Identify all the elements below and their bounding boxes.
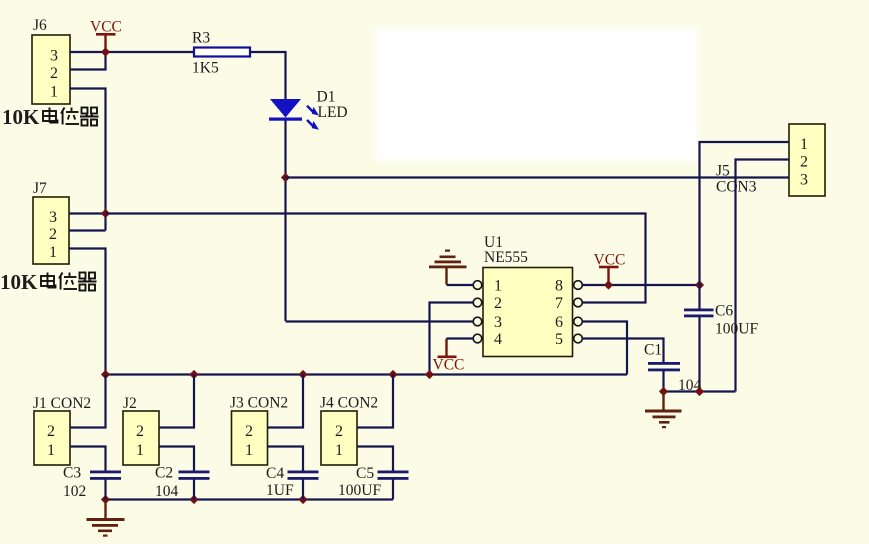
svg-text:1: 1 xyxy=(245,442,253,459)
connector J4 CON2 xyxy=(320,395,378,466)
svg-text:1: 1 xyxy=(494,278,502,295)
svg-text:10K: 10K xyxy=(2,105,40,129)
junction dot bus/J4 xyxy=(388,370,397,379)
svg-text:2: 2 xyxy=(494,295,502,312)
junction dot VCC/J6.3 xyxy=(101,47,110,56)
svg-text:C3: C3 xyxy=(63,465,81,482)
capacitor C6 xyxy=(684,285,758,392)
svg-text:2: 2 xyxy=(800,154,808,171)
pin circle U1.1 xyxy=(473,281,482,290)
wire J5 pin1 down to C6 node xyxy=(700,142,790,285)
junction dot C1 bottom xyxy=(659,387,668,396)
svg-text:4: 4 xyxy=(494,331,502,348)
svg-text:1: 1 xyxy=(136,442,144,459)
wire J4 pin2 to bus xyxy=(357,375,393,428)
svg-text:C5: C5 xyxy=(356,465,374,482)
wire J7 pin3 stub xyxy=(69,212,106,214)
dian xyxy=(41,276,54,286)
power VCC (right of U1 pin8) xyxy=(594,252,626,286)
svg-text:3: 3 xyxy=(800,172,808,189)
svg-text:2: 2 xyxy=(245,423,253,440)
svg-text:NE555: NE555 xyxy=(484,249,528,266)
svg-text:D1: D1 xyxy=(317,89,336,106)
svg-text:J2: J2 xyxy=(123,395,137,412)
ground above U1 pin1 xyxy=(429,250,467,285)
wire J7 pin2 stub xyxy=(69,229,106,231)
connector J1 CON2 xyxy=(33,395,91,465)
capacitor C4 xyxy=(266,465,319,500)
svg-text:J7: J7 xyxy=(33,180,47,197)
svg-text:2: 2 xyxy=(335,423,343,440)
ground (bottom) xyxy=(87,500,125,537)
svg-text:2: 2 xyxy=(136,423,144,440)
svg-text:1UF: 1UF xyxy=(266,482,294,499)
svg-text:VCC: VCC xyxy=(433,357,465,374)
ground below C1 xyxy=(645,392,682,429)
svg-text:J5: J5 xyxy=(716,163,730,180)
connector J3 CON2 xyxy=(230,395,288,466)
qi xyxy=(80,273,86,279)
svg-text:2: 2 xyxy=(47,423,55,440)
dian xyxy=(43,111,56,121)
svg-text:2: 2 xyxy=(50,65,58,82)
pin circle U1.6 xyxy=(574,317,583,326)
svg-text:J4 CON2: J4 CON2 xyxy=(320,395,378,412)
label 10K potentiometer (J6) xyxy=(2,105,99,129)
svg-text:1: 1 xyxy=(800,136,808,153)
resistor R3 xyxy=(192,30,250,77)
svg-text:3: 3 xyxy=(49,209,57,226)
svg-text:3: 3 xyxy=(494,314,502,331)
junction dot node A xyxy=(281,173,290,182)
wire U1 pin6 to bus corner xyxy=(582,322,627,375)
label 10K potentiometer (J7) xyxy=(0,270,97,294)
capacitor C2 xyxy=(155,465,210,501)
svg-text:10K: 10K xyxy=(0,270,38,294)
power VCC (top) xyxy=(90,19,122,53)
svg-text:J1 CON2: J1 CON2 xyxy=(33,395,91,412)
wire J3 pin1 to C4 xyxy=(268,447,304,471)
svg-text:3: 3 xyxy=(50,48,58,65)
svg-text:C4: C4 xyxy=(266,465,284,482)
pin circle U1.5 xyxy=(574,334,583,343)
connector J2 xyxy=(123,395,159,465)
svg-text:5: 5 xyxy=(555,331,563,348)
svg-text:C2: C2 xyxy=(155,465,173,482)
svg-text:C6: C6 xyxy=(715,303,733,320)
power VCC (under U1 pin4) xyxy=(433,339,465,374)
svg-text:2: 2 xyxy=(49,226,57,243)
junction dot rail/C3 xyxy=(101,495,110,504)
svg-text:J6: J6 xyxy=(33,17,47,34)
wire bus (J7.1 net) xyxy=(106,373,628,375)
wire U1 pin8 to C6/J5 node xyxy=(582,284,700,286)
wire J6 pin2 stub xyxy=(70,52,106,70)
pin circle U1.7 xyxy=(574,298,583,307)
wire node A to U1 pin3 xyxy=(286,320,474,322)
svg-text:J3 CON2: J3 CON2 xyxy=(230,395,288,412)
svg-text:1: 1 xyxy=(50,84,58,101)
wire J2 pin1 to C2 xyxy=(159,447,194,471)
wire J2 pin2 to bus xyxy=(159,375,194,428)
wire U1 pin5 to C1 xyxy=(582,339,664,363)
wire J1 pin1 to C3 xyxy=(70,447,106,471)
svg-text:R3: R3 xyxy=(192,30,210,47)
connector J7 xyxy=(33,180,69,264)
wire J5 pin2 down to ground net xyxy=(736,160,790,392)
wire LED down to node A xyxy=(284,121,286,322)
wire ground net C1/C6/J5.2 xyxy=(664,390,736,392)
capacitor C1 xyxy=(644,342,702,395)
junction dot C6 bottom xyxy=(695,387,704,396)
junction dot bus/J7.1 xyxy=(101,370,110,379)
svg-text:1K5: 1K5 xyxy=(192,60,219,77)
junction dot pin8/VCC xyxy=(604,280,613,289)
wire J3 pin2 to bus xyxy=(268,375,304,428)
op chip U1 NE555 xyxy=(483,234,573,357)
wire J7 node to U1 pin7 xyxy=(106,214,646,303)
capacitor C5 xyxy=(338,465,409,500)
svg-text:104: 104 xyxy=(155,483,179,500)
svg-text:100UF: 100UF xyxy=(338,482,381,499)
pin circle U1.3 xyxy=(473,317,482,326)
wire VCC to U1 pin4 xyxy=(447,337,474,339)
LED D1 xyxy=(269,89,348,130)
svg-text:8: 8 xyxy=(555,278,563,295)
wire J6 pin3 to VCC junction and R3 xyxy=(70,51,194,53)
wei xyxy=(61,108,65,114)
pin circle U1.4 xyxy=(473,334,482,343)
wire ground rail xyxy=(106,498,394,500)
junction dot J7 node xyxy=(101,209,110,218)
wire J7 pin1 down to bus xyxy=(69,249,106,375)
pin circle U1.2 xyxy=(473,298,482,307)
wire J1 pin2 to bus xyxy=(70,375,106,428)
junction dot bus/J2 xyxy=(189,370,198,379)
white patch (erased area) xyxy=(375,28,698,161)
wire U1 pin2 to bus xyxy=(430,303,474,375)
wire ground to U1 pin1 xyxy=(447,284,474,286)
svg-text:100UF: 100UF xyxy=(715,321,758,338)
svg-text:1: 1 xyxy=(335,442,343,459)
junction dot bus/J3 xyxy=(298,370,307,379)
wire J6 pin1 down to J7 net xyxy=(70,89,106,231)
pin circle U1.8 xyxy=(574,281,583,290)
capacitor C3 xyxy=(63,465,121,501)
wei xyxy=(59,273,63,279)
svg-text:1: 1 xyxy=(49,244,57,261)
connector J6 xyxy=(32,17,70,104)
svg-text:102: 102 xyxy=(63,483,86,500)
svg-text:6: 6 xyxy=(555,314,563,331)
svg-text:1: 1 xyxy=(47,442,55,459)
svg-text:LED: LED xyxy=(318,104,348,121)
wire R3 to LED corner xyxy=(250,52,286,99)
junction dot rail/C2 xyxy=(189,495,198,504)
svg-text:7: 7 xyxy=(555,295,563,312)
junction dot bus/U1.2 xyxy=(425,370,434,379)
qi xyxy=(82,108,88,114)
svg-text:C1: C1 xyxy=(644,342,662,359)
junction dot rail/C4 xyxy=(298,495,307,504)
connector J5 CON3 xyxy=(716,124,825,196)
wire J4 pin1 to C5 xyxy=(357,447,393,471)
wire node A to J5 pin3 xyxy=(286,176,790,178)
svg-text:VCC: VCC xyxy=(90,19,122,36)
junction dot pin8/C6 xyxy=(695,280,704,289)
